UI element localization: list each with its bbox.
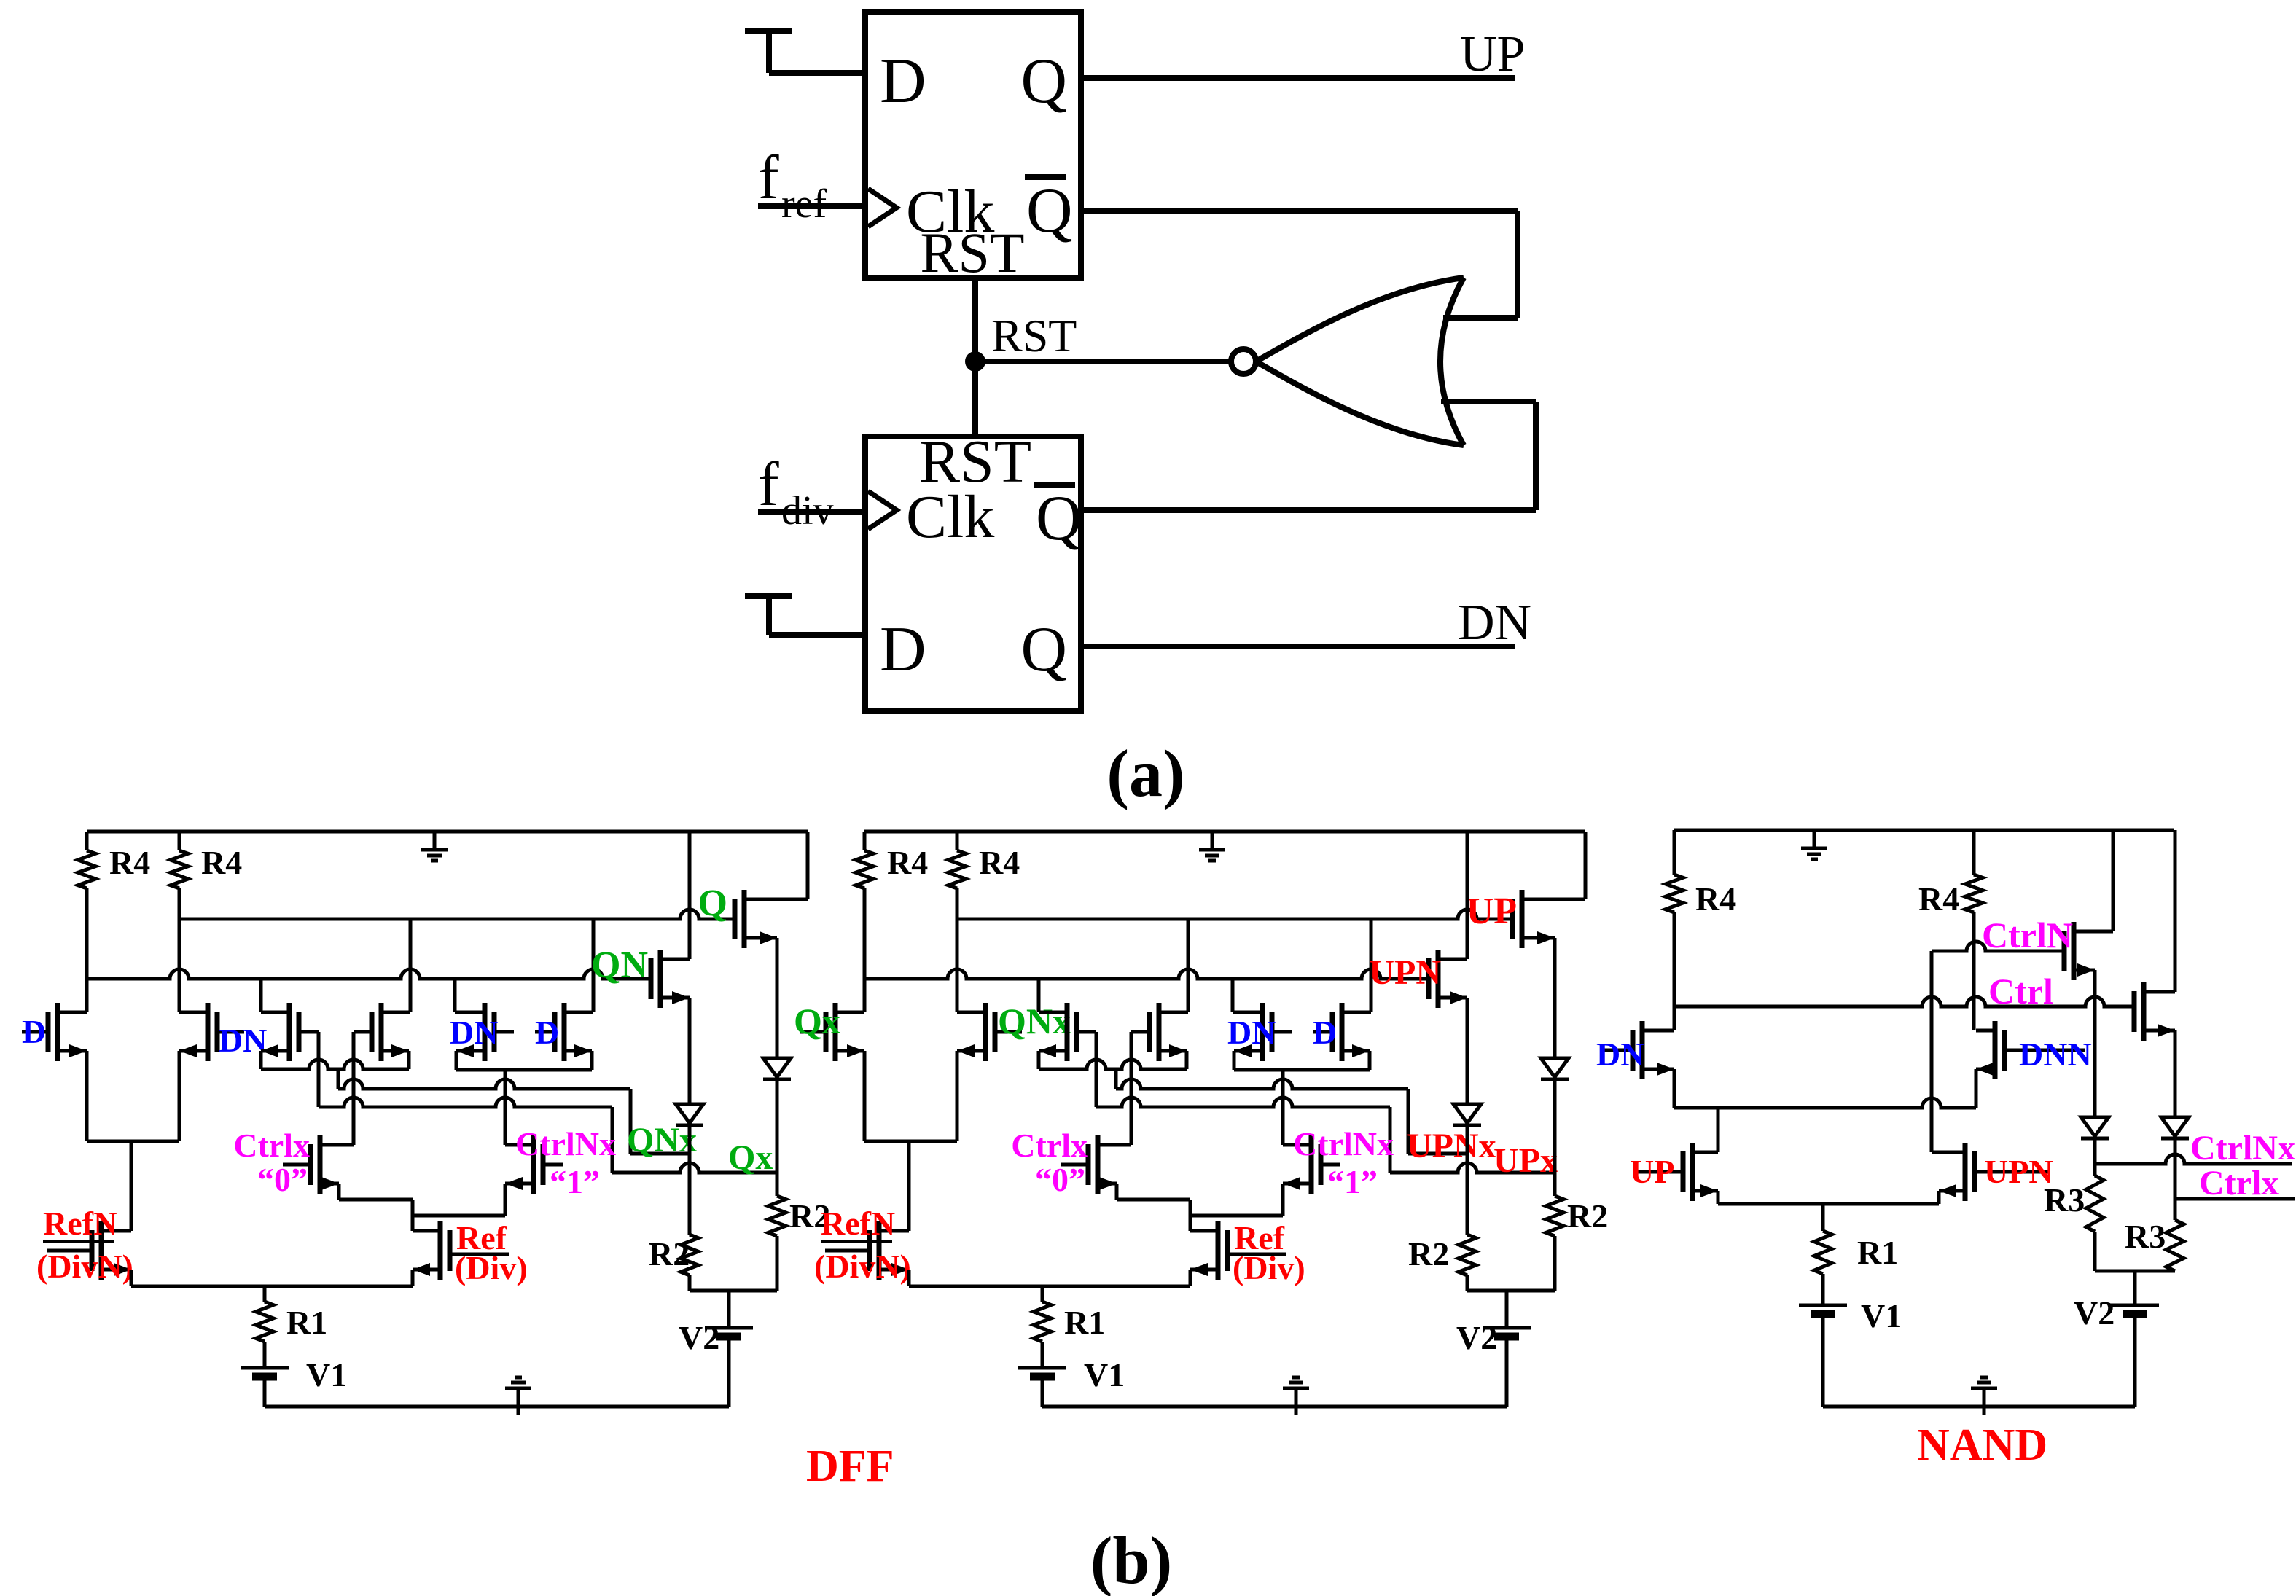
svg-text:f: f bbox=[758, 449, 779, 519]
svg-text:RefN: RefN bbox=[821, 1205, 895, 1242]
NAND top supply rail bbox=[1674, 829, 2174, 832]
svg-text:Q: Q bbox=[1036, 483, 1082, 554]
logic-high tie symbol at U1 D input bbox=[745, 28, 792, 34]
NAND bottom wire bbox=[1823, 1405, 2135, 1409]
DFF2 resistor R4 (right) bbox=[956, 832, 959, 850]
DFF2 wire M3/M4 source row bbox=[1039, 1060, 1187, 1069]
DFF2 input transistor M1 (Qx) bbox=[833, 1003, 838, 1061]
svg-text:R4: R4 bbox=[887, 844, 928, 881]
svg-text:Ctrlx: Ctrlx bbox=[1011, 1127, 1088, 1164]
DFF1 wire M6 drain up bbox=[592, 919, 596, 1012]
DFF1 input transistor M2 (DN) bbox=[206, 1003, 211, 1061]
NAND wire CtrlN gate lead bbox=[1932, 942, 2064, 951]
svg-text:V1: V1 bbox=[1084, 1356, 1125, 1393]
svg-text:QNx: QNx bbox=[998, 1001, 1071, 1041]
DFF U1 clock triangle bbox=[868, 189, 897, 227]
svg-text:“1”: “1” bbox=[550, 1163, 600, 1200]
node RST junction dot bbox=[965, 351, 985, 372]
DFF2 pass transistor Ctrlx bbox=[1096, 1135, 1101, 1194]
NAND transistor UPN bbox=[1963, 1143, 1968, 1201]
DFF1 input transistor M1 (D) bbox=[55, 1003, 60, 1061]
DFF2 wire M4 gate down to Ctrlx drain bbox=[1130, 1032, 1133, 1145]
svg-text:D: D bbox=[1313, 1014, 1337, 1051]
NAND resistor R4 (right) bbox=[1972, 830, 1976, 875]
DFF2 bottom wire bbox=[1042, 1405, 1507, 1409]
DFF1 hold transistor M5 (DN) bbox=[483, 1003, 488, 1061]
DFF U2 clock triangle bbox=[868, 491, 897, 529]
NAND wire UP/UPN source row bbox=[1717, 1191, 1720, 1204]
DFF2 wire M1/M2 source row and tail bbox=[863, 1051, 867, 1141]
DFF1 bottom wire bbox=[265, 1405, 729, 1409]
svg-text:(b): (b) bbox=[1090, 1523, 1172, 1596]
DFF1 battery V1 bbox=[241, 1366, 289, 1370]
DFF2 wire M5 drain up bbox=[1231, 979, 1235, 1012]
wire RST node to NOR output bubble bbox=[985, 359, 1231, 364]
svg-text:R3: R3 bbox=[2044, 1181, 2085, 1218]
DFF1 pass transistor Ctrlx bbox=[318, 1135, 323, 1194]
svg-text:V2: V2 bbox=[2074, 1294, 2115, 1331]
svg-text:UP: UP bbox=[1467, 891, 1517, 932]
svg-text:Ctrl: Ctrl bbox=[1988, 971, 2053, 1012]
DFF2 current source transistor Ref bbox=[1216, 1221, 1221, 1280]
DFF2 ground symbol (top) bbox=[1211, 832, 1214, 850]
DFF2 latch transistor M4 bbox=[1157, 1003, 1162, 1061]
svg-text:D: D bbox=[22, 1013, 46, 1050]
svg-text:UP: UP bbox=[1460, 26, 1525, 82]
DFF2 battery V1 bbox=[1018, 1366, 1066, 1370]
svg-text:R4: R4 bbox=[979, 844, 1020, 881]
svg-text:CtrlNx: CtrlNx bbox=[515, 1125, 616, 1162]
NOR gate U3 output bubble bbox=[1231, 349, 1256, 374]
DFF1 wire M5 drain up bbox=[453, 979, 457, 1012]
NAND wire Ctrl follower source down bbox=[2174, 1030, 2177, 1117]
wire f_div to U2 Clk bbox=[758, 509, 865, 515]
NAND resistor R3 (right) bbox=[2174, 1199, 2177, 1220]
DFF2 wire M3 gate to UPx line bbox=[1095, 1032, 1098, 1107]
svg-text:CtrlNx: CtrlNx bbox=[2190, 1129, 2295, 1167]
svg-text:DFF: DFF bbox=[806, 1442, 894, 1491]
svg-text:f: f bbox=[758, 142, 779, 212]
svg-text:D: D bbox=[535, 1014, 559, 1051]
DFF2 wire drain row (to UPN gate) bbox=[864, 969, 1429, 979]
DFF1 wire Ctrlx/CtrlNx sources to Ref drain bbox=[337, 1184, 341, 1200]
svg-text:DN: DN bbox=[1596, 1036, 1644, 1073]
svg-text:R4: R4 bbox=[109, 844, 150, 881]
DFF1 wire M4 gate down to Ctrlx drain bbox=[352, 1032, 356, 1145]
DFF1 output transistor M8 (Q) bbox=[742, 890, 747, 948]
DFF2 wire M5/M6 source row and tail bbox=[1233, 1051, 1236, 1070]
svg-text:RefN: RefN bbox=[43, 1205, 117, 1242]
DFF1 resistor R4 (left) bbox=[85, 832, 89, 850]
svg-text:DN: DN bbox=[450, 1014, 498, 1051]
svg-text:“1”: “1” bbox=[1327, 1163, 1378, 1200]
svg-text:R1: R1 bbox=[1857, 1234, 1898, 1271]
DFF2 latch transistor M3 bbox=[1065, 1003, 1070, 1061]
svg-text:R2: R2 bbox=[649, 1235, 690, 1272]
DFF2 wire latch tail to UPNx row bbox=[1114, 1069, 1118, 1089]
DFF1 wire M5/M6 source row and tail bbox=[455, 1051, 458, 1070]
DFF2 wire R2 join row bbox=[1467, 1289, 1555, 1293]
svg-text:RST: RST bbox=[920, 221, 1024, 284]
wire U2 Qbar to NOR input 2 bbox=[1533, 402, 1539, 510]
NAND input transistor DN bbox=[1640, 1021, 1645, 1079]
svg-text:Q: Q bbox=[1020, 46, 1067, 117]
NAND wire UPN drain up to CtrlN gate bbox=[1930, 951, 1934, 1152]
svg-text:Ctrlx: Ctrlx bbox=[233, 1127, 310, 1164]
DFF2 diode D1 bbox=[1453, 1104, 1481, 1123]
svg-text:UP: UP bbox=[1630, 1153, 1674, 1190]
DFF1 wire Qx row bbox=[612, 1163, 777, 1173]
svg-text:R2: R2 bbox=[1408, 1235, 1449, 1272]
wire f_ref to U1 Clk bbox=[758, 203, 865, 209]
DFF1 resistor R1 bbox=[263, 1286, 267, 1302]
DFF1 wire source row at bottom bbox=[130, 1270, 133, 1286]
svg-text:D: D bbox=[880, 614, 926, 685]
svg-text:Clk: Clk bbox=[906, 483, 994, 551]
DFF1 wire R2 join row bbox=[690, 1289, 777, 1293]
DFF1 wire M3/M4 source row bbox=[261, 1060, 409, 1069]
svg-text:CtrlNx: CtrlNx bbox=[1293, 1125, 1394, 1162]
DFF1 wire internal rail (to Q gate) bbox=[179, 910, 735, 919]
svg-text:QN: QN bbox=[591, 944, 648, 986]
DFF2 hold transistor M6 (D) bbox=[1340, 1003, 1345, 1061]
DFF1 resistor R2 (left) bbox=[681, 1235, 698, 1275]
DFF1 diode D1 bbox=[676, 1104, 703, 1123]
svg-text:(DivN): (DivN) bbox=[36, 1248, 133, 1285]
svg-text:R4: R4 bbox=[1918, 880, 1959, 918]
DFF1 current source transistor RefN bbox=[99, 1221, 104, 1280]
DFF1 latch transistor M4 bbox=[379, 1003, 384, 1061]
svg-text:R4: R4 bbox=[1695, 880, 1736, 918]
svg-text:V1: V1 bbox=[1861, 1297, 1902, 1334]
DFF1 wire M3 drain up bbox=[259, 979, 263, 1012]
DFF U2 (bottom D flip-flop) box bbox=[865, 437, 1081, 711]
DFF2 wire source row at bottom bbox=[907, 1270, 911, 1286]
svg-text:DNN: DNN bbox=[2019, 1036, 2092, 1073]
svg-text:UPx: UPx bbox=[1493, 1141, 1558, 1180]
NAND wire R3 join row bbox=[2095, 1270, 2175, 1273]
DFF2 current source transistor RefN bbox=[877, 1221, 882, 1280]
DFF2 wire M7 drain to rail bbox=[1466, 832, 1469, 959]
svg-text:V1: V1 bbox=[306, 1356, 347, 1393]
svg-text:NAND: NAND bbox=[1917, 1420, 2047, 1470]
wire U2 Qbar output bbox=[1081, 507, 1536, 513]
NAND wire Ctrlx row bbox=[2174, 1138, 2177, 1199]
NOR gate U3 body (mirrored, pointing left) bbox=[1256, 278, 1464, 445]
DFF1 wire M8 drain to rail bbox=[806, 832, 810, 899]
DFF1 wire M8 source down bbox=[776, 938, 779, 1058]
DFF2 input transistor M2 (QNx) bbox=[983, 1003, 988, 1061]
svg-text:V2: V2 bbox=[679, 1319, 719, 1356]
svg-text:Q: Q bbox=[1026, 176, 1073, 246]
DFF2 wire M7 source down bbox=[1466, 998, 1469, 1104]
DFF1 hold transistor M6 (D) bbox=[562, 1003, 567, 1061]
DFF1 latch transistor M3 bbox=[287, 1003, 292, 1061]
svg-text:(Div): (Div) bbox=[1233, 1249, 1305, 1286]
svg-text:“0”: “0” bbox=[1035, 1161, 1085, 1198]
DFF1 wire M3 gate to Qx line bbox=[317, 1032, 321, 1107]
wire U1 RST to node bbox=[972, 278, 978, 437]
DFF2 wire M4 drain up bbox=[1187, 919, 1190, 1012]
DFF2 wire internal rail (to UP gate) bbox=[957, 910, 1512, 919]
NAND follower transistor CtrlN bbox=[2072, 922, 2077, 980]
NAND ground symbol (top) bbox=[1813, 830, 1816, 848]
NAND wire CtrlN drain to rail bbox=[2112, 830, 2115, 931]
wire U2 Q output to DN bbox=[1081, 644, 1515, 649]
svg-text:RST: RST bbox=[991, 310, 1077, 361]
DFF1 wire M7 drain to rail bbox=[688, 832, 692, 959]
NAND diode D1 bbox=[2081, 1117, 2109, 1136]
NAND follower transistor Ctrl bbox=[2141, 982, 2147, 1041]
svg-text:R3: R3 bbox=[2125, 1218, 2166, 1255]
svg-text:(DivN): (DivN) bbox=[814, 1248, 911, 1285]
DFF1 current source transistor Ref bbox=[438, 1221, 443, 1280]
DFF2 wire Ctrlx/CtrlNx sources to Ref drain bbox=[1115, 1184, 1119, 1200]
DFF1 resistor R2 (right) bbox=[768, 1196, 786, 1236]
NAND wire Ctrl follower drain to rail bbox=[2174, 830, 2177, 992]
DFF1 pass transistor CtrlNx bbox=[531, 1135, 536, 1194]
DFF2 wire M8 drain to rail bbox=[1584, 832, 1588, 899]
NAND transistor UP bbox=[1690, 1143, 1695, 1201]
svg-text:D: D bbox=[880, 46, 926, 117]
DFF2 output transistor M8 (UP) bbox=[1520, 890, 1525, 948]
DFF U1 (top D flip-flop) box bbox=[865, 12, 1081, 278]
NAND wire Ctrl row bbox=[1674, 997, 2135, 1006]
svg-text:R1: R1 bbox=[1064, 1304, 1105, 1341]
DFF1 top supply rail bbox=[87, 830, 808, 834]
DFF2 wire M8 source down bbox=[1553, 938, 1557, 1058]
wire Qbar down to NOR input 1 bbox=[1515, 211, 1520, 318]
DFF1 resistor R4 (right) bbox=[178, 832, 181, 850]
NAND wire UP drain up to source row bbox=[1717, 1108, 1720, 1152]
DFF2 diode D2 bbox=[1541, 1058, 1569, 1077]
DFF2 ground symbol (bottom) bbox=[1295, 1388, 1298, 1415]
svg-text:DN: DN bbox=[1227, 1014, 1276, 1051]
svg-text:“0”: “0” bbox=[257, 1161, 308, 1198]
DFF2 wire M3 drain up bbox=[1037, 979, 1041, 1012]
svg-text:R4: R4 bbox=[201, 844, 242, 881]
svg-text:Q: Q bbox=[1020, 614, 1067, 685]
DFF1 battery V2 bbox=[727, 1291, 731, 1328]
DFF1 wire latch tail to QNx row bbox=[337, 1069, 340, 1089]
DFF1 diode D2 bbox=[763, 1058, 791, 1077]
NAND wire CtrlN source down bbox=[2093, 970, 2097, 1117]
DFF2 pass transistor CtrlNx bbox=[1309, 1135, 1314, 1194]
wire U1 Qbar output bbox=[1081, 208, 1518, 214]
DFF1 wire M7 source down bbox=[688, 998, 692, 1104]
DFF2 top supply rail bbox=[864, 830, 1585, 834]
svg-text:(a): (a) bbox=[1106, 736, 1184, 810]
DFF2 hold transistor M5 (DN) bbox=[1260, 1003, 1265, 1061]
NAND ground symbol (bottom) bbox=[1983, 1388, 1986, 1415]
svg-text:(Div): (Div) bbox=[455, 1249, 528, 1286]
NAND wire DN/DNN source row bbox=[1674, 1098, 1976, 1108]
DFF2 wire M6 drain up bbox=[1370, 919, 1373, 1012]
DFF2 resistor R2 (right) bbox=[1546, 1196, 1563, 1236]
svg-text:DN: DN bbox=[1458, 595, 1531, 651]
DFF1 ground symbol (top) bbox=[433, 832, 437, 850]
NAND input transistor DNN bbox=[1993, 1021, 1998, 1079]
svg-text:UPN: UPN bbox=[1984, 1153, 2053, 1190]
DFF2 resistor R1 bbox=[1041, 1286, 1044, 1302]
DFF2 resistor R4 (left) bbox=[863, 832, 867, 850]
svg-text:UPNx: UPNx bbox=[1407, 1127, 1496, 1165]
NAND resistor R3 (left) bbox=[2093, 1164, 2097, 1176]
wire U2 D input bbox=[769, 632, 865, 638]
NAND battery V1 bbox=[1799, 1304, 1847, 1307]
svg-text:V2: V2 bbox=[1456, 1319, 1497, 1356]
DFF2 wire UPx row bbox=[1390, 1163, 1555, 1173]
svg-text:R2: R2 bbox=[1567, 1197, 1608, 1235]
svg-text:R1: R1 bbox=[286, 1304, 327, 1341]
NAND diode D2 bbox=[2161, 1117, 2189, 1136]
wire U1 Q output to UP bbox=[1081, 75, 1515, 81]
logic-high tie symbol at U2 D input bbox=[745, 593, 792, 599]
DFF1 output transistor M7 (QN) bbox=[658, 950, 663, 1008]
DFF1 wire M1/M2 source row and tail bbox=[85, 1051, 89, 1141]
svg-text:UPN: UPN bbox=[1369, 953, 1441, 992]
DFF2 battery V2 bbox=[1505, 1291, 1509, 1328]
DFF2 output transistor M7 (UPN) bbox=[1436, 950, 1441, 1008]
DFF1 wire drain row (to QN gate) bbox=[87, 969, 651, 979]
svg-text:Q: Q bbox=[698, 883, 727, 924]
DFF2 resistor R2 (left) bbox=[1459, 1235, 1476, 1275]
NAND resistor R1 bbox=[1821, 1204, 1825, 1231]
DFF1 ground symbol (bottom) bbox=[517, 1388, 520, 1415]
NAND resistor R4 (left) bbox=[1673, 830, 1676, 875]
NAND battery V2 bbox=[2133, 1271, 2137, 1305]
wire U1 D input bbox=[769, 70, 865, 76]
svg-text:Ctrlx: Ctrlx bbox=[2199, 1164, 2279, 1202]
svg-text:Qx: Qx bbox=[728, 1138, 773, 1177]
svg-text:CtrlN: CtrlN bbox=[1982, 915, 2073, 955]
DFF1 wire M4 drain up bbox=[409, 919, 413, 1012]
NAND wire CtrlNx row bbox=[2093, 1138, 2097, 1164]
svg-text:Qx: Qx bbox=[794, 1001, 840, 1041]
